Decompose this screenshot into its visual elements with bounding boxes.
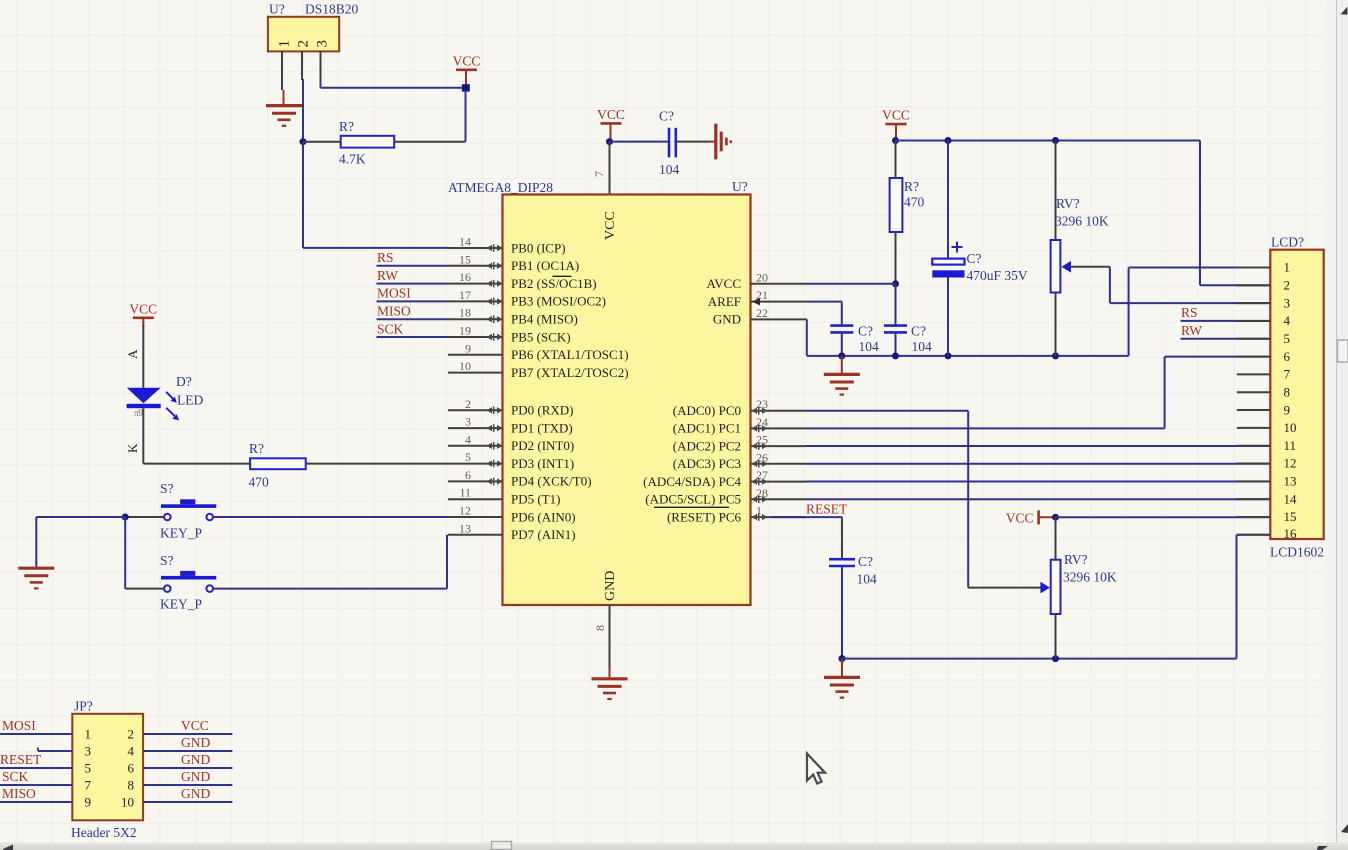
svg-text:(RESET) PC6: (RESET) PC6 [667, 509, 742, 524]
svg-text:13: 13 [459, 521, 471, 535]
capacitor C? 104 (decoupling 2) [884, 324, 932, 355]
svg-text:VCC: VCC [597, 107, 625, 122]
svg-text:6: 6 [128, 760, 135, 775]
svg-text:11: 11 [1284, 438, 1297, 453]
wire PC4 to LCD pin13 [806, 481, 1270, 483]
MCU right pin 25 (ADC2) PC2 [673, 433, 806, 454]
MCU left pin 13 PD7 [448, 521, 576, 542]
LCD pin 1 [1237, 260, 1290, 275]
MCU right pin 26 (ADC3) PC3 [673, 450, 806, 471]
svg-text:GND: GND [603, 571, 618, 601]
svg-text:5: 5 [465, 450, 471, 464]
svg-text:(ADC3) PC3: (ADC3) PC3 [673, 456, 741, 471]
wire MCU AVCC to node [806, 283, 896, 285]
svg-text:π9: π9 [134, 408, 144, 418]
net label VCC (JP right) [181, 718, 209, 733]
svg-text:8: 8 [128, 777, 135, 792]
horizontal scrollbar right arrow [1317, 846, 1328, 850]
MCU right pin 21 AREF [708, 288, 806, 309]
svg-text:3: 3 [315, 40, 331, 48]
JP pin 9 wire [0, 794, 91, 809]
wire PC5 to LCD pin14 [806, 498, 1270, 500]
svg-text:PD0 (RXD): PD0 (RXD) [511, 403, 573, 418]
net label MOSI (JP) [2, 718, 36, 733]
svg-text:(ADC0) PC0: (ADC0) PC0 [673, 403, 741, 418]
svg-text:PB6 (XTAL1/TOSC1): PB6 (XTAL1/TOSC1) [511, 347, 629, 362]
svg-text:PB0 (ICP): PB0 (ICP) [511, 240, 566, 255]
LCD pin 13 [1237, 474, 1297, 489]
svg-text:3296 10K: 3296 10K [1063, 570, 1117, 585]
svg-text:VCC: VCC [181, 718, 209, 733]
vertical scrollbar up arrow [1341, 7, 1348, 15]
LCD pin 2 [1237, 278, 1290, 293]
wire R470 bottom to AVCC node [895, 232, 897, 284]
svg-text:PB4 (MISO): PB4 (MISO) [511, 312, 578, 327]
svg-text:(ADC1) PC1: (ADC1) PC1 [673, 421, 741, 436]
MCU left pin 9 PB6 [448, 341, 629, 362]
net label RESET wire [771, 502, 848, 518]
mouse cursor [807, 754, 825, 784]
svg-text:17: 17 [459, 288, 471, 302]
capacitor C? 470uF 35V [932, 141, 1028, 356]
svg-text:DS18B20: DS18B20 [305, 2, 359, 17]
svg-text:VCC: VCC [1006, 511, 1034, 526]
svg-text:PB3 (MOSI/OC2): PB3 (MOSI/OC2) [511, 294, 606, 309]
MCU left pin 19 PB5 [448, 324, 571, 345]
wire rail2 up to LCD pin16 [1237, 535, 1271, 659]
svg-text:AREF: AREF [708, 294, 741, 309]
svg-text:6: 6 [465, 468, 471, 482]
svg-text:RESET: RESET [806, 502, 848, 517]
LED cathode lead + K label [125, 408, 143, 463]
svg-text:2: 2 [128, 726, 135, 741]
wire node down to cap2 [895, 284, 897, 326]
power port VCC (top-right) [882, 108, 910, 139]
wire VCC node to capacitor [610, 141, 668, 143]
wire switch1 to MCU pin12 [213, 516, 448, 518]
wire cap1 to gnd rail [841, 333, 843, 356]
svg-text:16: 16 [459, 270, 471, 284]
svg-text:PD3 (INT1): PD3 (INT1) [511, 456, 574, 471]
wire LED to R470 [143, 463, 250, 465]
wire RESET down to cap [841, 517, 843, 559]
node: switches common [122, 514, 129, 521]
LCD pin 12 [1237, 456, 1297, 471]
wire MCU AREF right [806, 301, 842, 303]
MCU left pin 12 PD6 [448, 504, 576, 525]
JP pin 6 wire [128, 760, 233, 775]
svg-text:1: 1 [1284, 260, 1291, 275]
MCU right pin 24 (ADC1) PC1 [673, 415, 806, 436]
svg-text:ATMEGA8_DIP28: ATMEGA8_DIP28 [448, 180, 553, 195]
svg-text:RESET: RESET [0, 752, 42, 767]
svg-text:U?: U? [732, 179, 748, 194]
svg-text:PD7 (AIN1): PD7 (AIN1) [511, 527, 576, 542]
svg-text:104: 104 [912, 339, 933, 354]
svg-text:2: 2 [296, 40, 312, 48]
svg-text:7: 7 [85, 777, 92, 792]
wire reset cap to gnd rail2 [841, 567, 843, 659]
svg-text:GND: GND [713, 312, 741, 327]
vertical scrollbar thumb [1338, 340, 1348, 362]
svg-text:LCD1602: LCD1602 [1270, 545, 1324, 560]
switch S? KEY_P (lower) [160, 553, 216, 612]
MCU left pin 17 PB3 [448, 288, 606, 309]
horizontal scrollbar track [0, 843, 1348, 850]
ground below DS18B20 [266, 90, 302, 126]
svg-text:RS: RS [377, 250, 394, 265]
svg-text:3: 3 [1284, 295, 1291, 310]
LCD pin 8 [1237, 384, 1290, 399]
node: VCC square junction [462, 84, 470, 91]
display name fix PC4 [0, 0, 1, 1]
ground (right-facing) after C104 [709, 124, 731, 160]
LCD pin 15 [1237, 509, 1297, 524]
svg-text:12: 12 [1284, 456, 1297, 471]
svg-text:R?: R? [249, 441, 264, 456]
svg-text:9: 9 [85, 794, 92, 809]
wire wiper to LCD pin3 [1110, 302, 1270, 304]
svg-text:C?: C? [858, 324, 873, 339]
svg-text:C?: C? [858, 554, 873, 569]
wire VCC node down to R 4.7K [465, 91, 467, 142]
ground below MCU pin8 [592, 668, 628, 699]
svg-text:15: 15 [1284, 509, 1297, 524]
wire switch1 left to node [125, 516, 164, 518]
node: rail2/RV2 [1052, 655, 1059, 662]
svg-text:PD6 (AIN0): PD6 (AIN0) [511, 509, 576, 524]
svg-text:GND: GND [181, 769, 210, 784]
svg-text:KEY_P: KEY_P [160, 597, 202, 612]
net label GND (JP right) [181, 752, 210, 767]
svg-text:7: 7 [1284, 367, 1291, 382]
svg-text:RV?: RV? [1056, 196, 1080, 211]
wire PC3 to LCD pin12 [806, 463, 1270, 465]
net label MISO (JP) [2, 786, 36, 801]
svg-text:MOSI: MOSI [2, 718, 36, 733]
potentiometer RV? 3296 10K (lower) body [1051, 552, 1117, 614]
svg-text:PD4 (XCK/T0): PD4 (XCK/T0) [511, 474, 592, 489]
wire PC2 to LCD pin11 [806, 445, 1270, 447]
LCD pin 11 [1237, 438, 1296, 453]
svg-text:10: 10 [1284, 420, 1297, 435]
svg-text:MOSI: MOSI [377, 286, 411, 301]
wire PC0 right [806, 410, 968, 412]
LCD pin 9 [1237, 402, 1290, 417]
svg-text:18: 18 [459, 306, 471, 320]
RV2 bottom lead [1055, 614, 1057, 659]
MCU right pin 27 (ADC4/SDA) PC4 [643, 468, 806, 489]
RV2 top lead [1055, 517, 1057, 560]
vertical scrollbar down arrow [1341, 824, 1348, 833]
MCU left pin 10 PB7 [448, 359, 629, 380]
wire VCC rail to x1200 [896, 140, 1201, 142]
svg-text:470: 470 [904, 195, 925, 210]
svg-text:SCK: SCK [377, 322, 404, 337]
connector LCD? LCD1602 body [1270, 235, 1324, 560]
MCU left pin 14 PB0 [448, 235, 566, 256]
svg-text:4: 4 [128, 743, 135, 758]
svg-text:470: 470 [249, 475, 270, 490]
node: VCC/pin7/cap junction [606, 138, 613, 145]
svg-text:22: 22 [756, 306, 768, 320]
wire RV1 wiper right [1070, 266, 1110, 268]
LCD pin 7 [1237, 367, 1291, 382]
net label MOSI wire [377, 286, 449, 302]
LED emission arrows [166, 392, 179, 421]
resistor R? 4.7K body [339, 119, 394, 167]
node: DQ / R pullup junction [300, 138, 307, 145]
svg-text:3: 3 [85, 743, 92, 758]
svg-text:PD1 (TXD): PD1 (TXD) [511, 420, 573, 435]
switch S? KEY_P (upper) [160, 481, 216, 541]
underline under ADC5/SCL [654, 506, 729, 508]
gnd rail (upper) [807, 355, 1129, 357]
svg-text:14: 14 [459, 235, 471, 249]
svg-text:4: 4 [465, 432, 471, 446]
node: AVCC junction [892, 280, 899, 287]
svg-text:PB7 (XTAL2/TOSC2): PB7 (XTAL2/TOSC2) [511, 365, 629, 380]
wire wiper down [1109, 267, 1111, 303]
JP pin 4 wire [128, 743, 233, 758]
node: VCC rail left [892, 137, 899, 144]
MCU left pin 11 PD5 [448, 486, 560, 507]
LCD pin 10 [1237, 420, 1297, 435]
wire to switch2 left [125, 588, 164, 590]
JP pin 2 wire [128, 726, 233, 741]
svg-text:K: K [125, 443, 140, 453]
power port VCC (top-left) [453, 53, 481, 85]
MCU left pin 6 PD4 [448, 468, 592, 489]
svg-text:S?: S? [160, 553, 174, 568]
net label RS wire (LCD) [1181, 305, 1271, 321]
net label SCK (JP) [2, 769, 29, 784]
svg-text:R?: R? [904, 179, 919, 194]
svg-text:470uF 35V: 470uF 35V [967, 268, 1028, 283]
DS18B20 pin 1 lead [281, 51, 283, 90]
svg-text:LED: LED [177, 393, 203, 408]
svg-text:(ADC2) PC2: (ADC2) PC2 [673, 438, 741, 453]
ground below gnd rail [824, 356, 860, 395]
svg-text:PB2 (SS/OC1B): PB2 (SS/OC1B) [511, 276, 597, 291]
wire capacitor to ground [677, 141, 709, 143]
svg-text:13: 13 [1284, 474, 1297, 489]
svg-text:RS: RS [1181, 305, 1198, 320]
overline over SS [553, 275, 572, 277]
node: rail at RV1 [1052, 137, 1059, 144]
connector JP? Header 5X2 body [71, 699, 143, 841]
svg-text:PD2 (INT0): PD2 (INT0) [511, 438, 574, 453]
net label GND (JP right) [181, 786, 210, 801]
IC U? DS18B20 body [268, 2, 359, 52]
MCU left pin 2 PD0 [448, 397, 573, 418]
svg-text:(ADC5/SCL) PC5: (ADC5/SCL) PC5 [645, 492, 741, 507]
JP pin 1 wire [0, 726, 91, 741]
wire PC0 to RV2 wiper [968, 587, 1041, 589]
node: rail/RV1 [1052, 352, 1059, 359]
svg-text:9: 9 [1284, 402, 1291, 417]
MCU right pin 22 GND [713, 306, 806, 327]
net label MISO wire [377, 304, 449, 320]
wire DQ node down to PB0 row [302, 142, 304, 248]
LCD pin 14 [1237, 491, 1297, 506]
ground below switches [18, 568, 54, 588]
DS18B20 pin 2 lead [301, 51, 303, 80]
node: rail/cap1 [838, 352, 845, 359]
wire switch2 right run [213, 588, 447, 590]
wire PC1 to turn [806, 427, 1165, 429]
LED D? symbol [127, 374, 204, 408]
MCU left pin 15 PB1 [448, 252, 579, 273]
svg-text:7: 7 [592, 171, 606, 177]
wire R4.7K right lead [394, 141, 465, 143]
svg-text:4.7K: 4.7K [339, 152, 366, 167]
svg-text:16: 16 [1284, 526, 1298, 541]
svg-text:3296 10K: 3296 10K [1055, 214, 1109, 229]
net label RS wire [377, 250, 449, 266]
wire DS pin3 to VCC node [321, 79, 466, 88]
svg-text:A: A [125, 349, 140, 359]
svg-text:C?: C? [967, 251, 982, 266]
svg-text:104: 104 [659, 162, 680, 177]
LCD pin 6 [1237, 349, 1291, 364]
power port VCC (LED) [129, 301, 157, 327]
gnd rail (lower) [842, 658, 1237, 660]
svg-text:GND: GND [181, 786, 210, 801]
IC U? ATMEGA8_DIP28 body [448, 179, 751, 605]
wire turn up to LCD pin6 row [1164, 357, 1166, 429]
svg-text:RV?: RV? [1064, 552, 1088, 567]
svg-text:19: 19 [459, 324, 471, 338]
MCU right pin 23 (ADC0) PC0 [673, 397, 806, 418]
net label RESET (JP) [0, 752, 42, 767]
resistor R? 470 (LED) body [249, 441, 306, 490]
svg-text:R?: R? [339, 119, 354, 134]
wire MCU GND pin22 right [805, 319, 808, 356]
svg-text:(ADC4/SDA) PC4: (ADC4/SDA) PC4 [643, 474, 741, 489]
capacitor C? 104 (decoupling 1) [830, 324, 879, 355]
svg-text:4: 4 [1284, 313, 1291, 328]
MCU pin 7 lead [592, 142, 610, 195]
svg-text:2: 2 [1284, 278, 1291, 293]
svg-text:RW: RW [377, 268, 398, 283]
JP pin 7 wire [0, 777, 92, 792]
svg-text:U?: U? [269, 2, 285, 17]
svg-text:Header 5X2: Header 5X2 [71, 825, 137, 840]
MCU pin 8 lead [593, 605, 610, 670]
svg-text:S?: S? [160, 481, 174, 496]
svg-text:14: 14 [1284, 491, 1298, 506]
JP pin 5 wire [0, 760, 91, 775]
wire up to MCU pin13 [446, 535, 448, 589]
JP pin 8 wire [128, 777, 233, 792]
LCD pin 5 [1237, 331, 1290, 346]
svg-text:3: 3 [465, 415, 471, 429]
svg-text:LCD?: LCD? [1271, 235, 1304, 250]
wire R4.7K left lead [303, 141, 341, 143]
svg-text:GND: GND [181, 735, 210, 750]
MCU left pin 16 PB2 [448, 270, 597, 291]
capacitor C? 104 (top) [659, 109, 680, 178]
LED small pin marks [134, 408, 144, 418]
svg-text:VCC: VCC [129, 301, 157, 316]
svg-text:VCC: VCC [453, 53, 481, 68]
net label SCK wire [377, 322, 449, 338]
wire gnd rail up to LCD pin1 [1129, 268, 1271, 356]
RV1 wiper arrow [1062, 261, 1072, 273]
resistor R? 470 (pullup) body [890, 178, 925, 232]
svg-text:RW: RW [1181, 323, 1202, 338]
node: VCC/RV2/LCD15 [1052, 514, 1059, 521]
svg-text:1: 1 [277, 40, 293, 48]
wire cap2 to gnd rail [895, 333, 897, 356]
wire R470 to MCU pin5 [306, 463, 448, 465]
vertical scrollbar track [1337, 0, 1348, 850]
wire rail down to LCD pin2 [1200, 141, 1270, 286]
svg-text:10: 10 [121, 794, 134, 809]
DS18B20 pin 3 lead [320, 51, 322, 80]
svg-text:104: 104 [859, 339, 880, 354]
net label RW wire (LCD) [1181, 323, 1271, 339]
net label GND (JP right) [181, 769, 210, 784]
svg-text:9: 9 [465, 341, 471, 355]
JP pin 3 wire [38, 743, 91, 758]
svg-text:104: 104 [857, 572, 878, 587]
net label GND (JP right) [181, 735, 210, 750]
svg-text:2: 2 [465, 397, 471, 411]
RV1 top lead [1055, 141, 1057, 241]
svg-text:PD5 (T1): PD5 (T1) [511, 492, 560, 507]
svg-text:C?: C? [911, 324, 926, 339]
svg-text:PB1 (OC1A): PB1 (OC1A) [511, 258, 579, 273]
node: rail2 left [839, 655, 846, 662]
wire DS18B20 DQ net down to node [302, 79, 304, 142]
svg-text:SCK: SCK [2, 769, 29, 784]
svg-text:MISO: MISO [377, 304, 411, 319]
svg-text:1: 1 [85, 726, 92, 741]
svg-text:PB5 (SCK): PB5 (SCK) [511, 329, 571, 344]
svg-text:KEY_P: KEY_P [160, 526, 202, 541]
wire to LCD pin6 [1165, 356, 1271, 358]
svg-text:11: 11 [459, 486, 471, 500]
node: rail/cap2 [892, 352, 899, 359]
svg-text:15: 15 [459, 252, 471, 266]
off-sheet strip right [1326, 0, 1337, 843]
svg-text:VCC: VCC [882, 108, 910, 123]
MCU right pin 1 (RESET) PC6 [667, 504, 806, 525]
svg-text:20: 20 [756, 270, 768, 284]
svg-text:JP?: JP? [74, 699, 93, 714]
node: rail/470uF [945, 352, 952, 359]
svg-text:5: 5 [85, 760, 92, 775]
svg-text:D?: D? [176, 374, 192, 389]
svg-text:8: 8 [1284, 384, 1291, 399]
wire DQ to MCU pin14 [303, 247, 448, 249]
LCD pin 4 [1237, 313, 1291, 328]
power port VCC (right, horizontal) [1006, 510, 1056, 525]
svg-text:MISO: MISO [2, 786, 36, 801]
net label RW wire [377, 268, 449, 284]
LCD pin 16 [1237, 526, 1297, 541]
power port VCC (above MCU) [597, 107, 625, 140]
wire PC0 down [967, 411, 969, 588]
svg-text:AVCC: AVCC [707, 276, 741, 291]
wire VCC node to R470 top [895, 141, 897, 179]
horizontal scrollbar thumb [492, 842, 512, 850]
MCU right pin 20 AVCC [707, 270, 806, 291]
MCU left pin 4 PD2 [448, 432, 574, 453]
capacitor C? 104 (reset) [829, 554, 877, 587]
